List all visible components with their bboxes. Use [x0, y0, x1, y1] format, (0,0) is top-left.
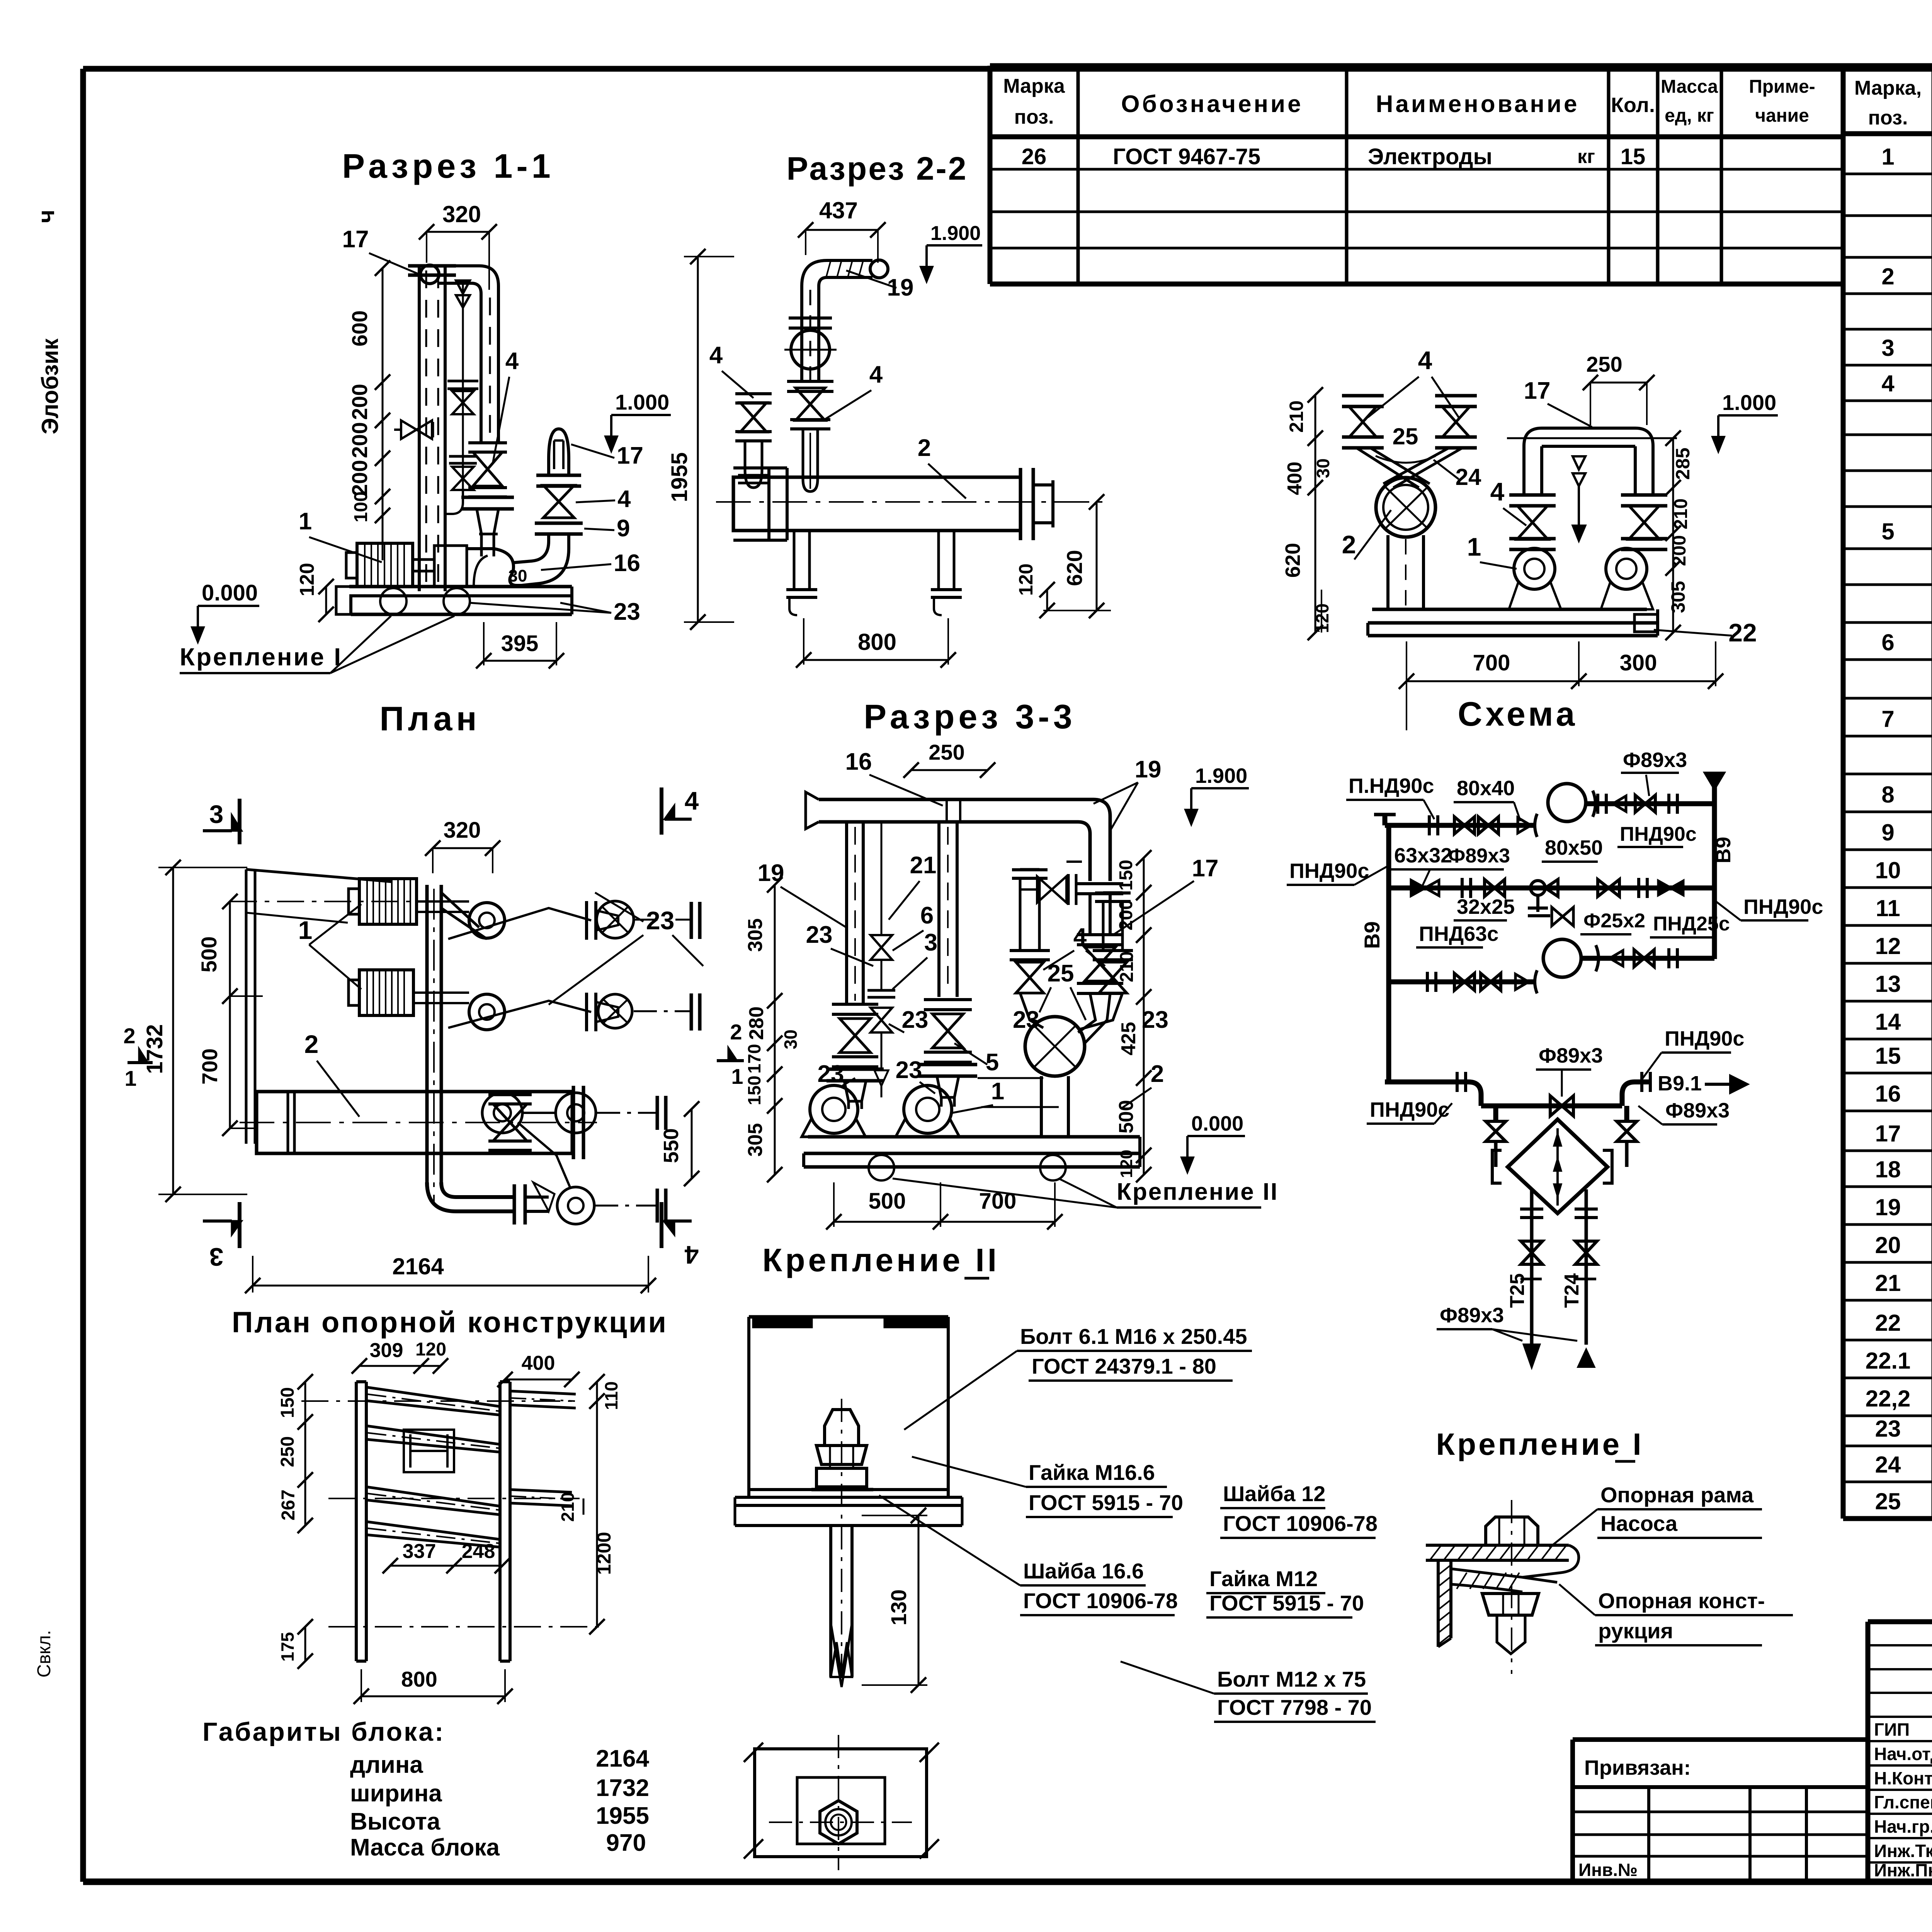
svg-text:4: 4 [684, 1241, 699, 1269]
svg-text:Гайка М12: Гайка М12 [1209, 1566, 1318, 1591]
svg-text:30: 30 [781, 1029, 801, 1049]
plan: side section marks 2/1 right [717, 1020, 744, 1088]
section 2-2: dim 800 bottom [796, 618, 956, 668]
svg-text:4: 4 [617, 486, 631, 512]
svg-text:25: 25 [1875, 1488, 1901, 1514]
support plan: braces [366, 1387, 500, 1547]
svg-text:500: 500 [869, 1189, 906, 1214]
section 1-1: callout 4 [493, 348, 519, 464]
section 1-1: dim 395 bottom [476, 622, 564, 668]
svg-text:1: 1 [299, 508, 312, 535]
section 3-3: foundation circles [869, 1155, 894, 1180]
detail Kreplenie I: labels [1549, 1483, 1793, 1645]
svg-text:22: 22 [1875, 1310, 1901, 1336]
svg-text:25: 25 [1393, 423, 1418, 449]
end view: right dim chain [1665, 430, 1694, 640]
svg-text:Привязан:: Привязан: [1584, 1756, 1691, 1779]
section 1-1: electric motor [346, 543, 434, 587]
section 1-1: pump with volute [434, 534, 527, 587]
svg-text:18: 18 [1875, 1156, 1901, 1182]
svg-text:16: 16 [614, 550, 640, 577]
svg-text:План опорной конструкции: План опорной конструкции [232, 1306, 668, 1339]
left table header text [1003, 75, 1815, 128]
svg-text:23: 23 [1142, 1007, 1168, 1033]
plan: manifold column [427, 885, 487, 1206]
svg-text:6: 6 [1881, 629, 1894, 655]
svg-text:Инв.№: Инв.№ [1578, 1860, 1638, 1880]
svg-text:620: 620 [1281, 543, 1304, 578]
support plan: dims top 309 120 400 [352, 1339, 580, 1387]
svg-text:кг: кг [1577, 146, 1595, 167]
svg-text:В9: В9 [1712, 837, 1735, 863]
section 1-1: dim 320 top [419, 201, 497, 290]
svg-text:2: 2 [123, 1024, 135, 1048]
plan: dim 550 right [660, 1101, 699, 1186]
svg-text:970: 970 [606, 1830, 646, 1856]
svg-text:120: 120 [1015, 563, 1037, 595]
svg-text:210: 210 [558, 1492, 578, 1522]
svg-text:Масса: Масса [1661, 77, 1718, 97]
title block frame [1868, 1622, 1932, 1882]
end view: callout 22 [1654, 618, 1757, 647]
svg-text:600: 600 [347, 310, 372, 346]
svg-text:длина: длина [350, 1752, 423, 1778]
svg-text:16: 16 [1875, 1081, 1901, 1107]
plan: dim 1732 left [142, 860, 247, 1202]
svg-text:2164: 2164 [392, 1253, 444, 1279]
section 3-3: left dim chain [744, 877, 801, 1182]
svg-text:700: 700 [1473, 650, 1510, 675]
svg-text:250: 250 [277, 1436, 298, 1467]
schema: line 4 bottom with bypass [1385, 982, 1747, 1116]
svg-text:ПНД25с: ПНД25с [1653, 913, 1730, 935]
svg-text:1: 1 [1881, 144, 1894, 170]
svg-text:Свкл.: Свкл. [34, 1630, 54, 1677]
svg-text:ГОСТ 10906-78: ГОСТ 10906-78 [1023, 1588, 1178, 1613]
svg-text:Масса блока: Масса блока [350, 1834, 500, 1861]
svg-text:250: 250 [1586, 352, 1622, 376]
svg-text:200: 200 [347, 460, 372, 496]
svg-text:1732: 1732 [596, 1775, 649, 1801]
svg-text:210: 210 [1671, 498, 1691, 529]
svg-text:Ф89х3: Ф89х3 [1440, 1304, 1504, 1327]
section 1-1: side valve on column [394, 420, 433, 439]
svg-text:130: 130 [886, 1589, 911, 1625]
svg-text:ПНД90с: ПНД90с [1620, 823, 1697, 845]
schema: heat exchanger diamond [1486, 1106, 1637, 1213]
svg-text:16: 16 [845, 748, 872, 775]
svg-text:ПНД90с: ПНД90с [1289, 859, 1369, 883]
svg-text:13: 13 [1875, 971, 1901, 997]
svg-text:В9: В9 [1360, 921, 1384, 949]
svg-text:175: 175 [277, 1632, 298, 1662]
left margin vertical handwriting [33, 210, 63, 1678]
svg-text:23: 23 [1875, 1416, 1901, 1442]
section 1-1: top elbow pipe with cap [420, 265, 498, 443]
section 1-1: riser column pipe [408, 266, 456, 591]
svg-text:11: 11 [1876, 895, 1900, 921]
svg-text:Ф89х3: Ф89х3 [1623, 748, 1687, 772]
svg-text:200: 200 [1116, 900, 1136, 930]
view title Крепление II [762, 1242, 1000, 1278]
svg-text:7: 7 [1881, 706, 1894, 732]
end view: right pump drop [1601, 495, 1667, 609]
svg-text:100: 100 [351, 492, 371, 522]
svg-text:17: 17 [1524, 378, 1551, 404]
svg-text:Шайба 16.6: Шайба 16.6 [1023, 1559, 1144, 1583]
svg-text:Обозначение: Обозначение [1121, 91, 1303, 117]
svg-text:Ф89х3: Ф89х3 [1539, 1044, 1603, 1067]
section 1-1: dim 120 [296, 563, 334, 622]
svg-text:2: 2 [918, 435, 931, 461]
svg-text:19: 19 [887, 274, 914, 301]
detail Kreplenie II: channel beam [735, 1317, 962, 1526]
svg-text:17: 17 [1875, 1121, 1901, 1146]
svg-text:Крепление I: Крепление I [180, 643, 342, 671]
plan: diagonal bracing pipes [448, 908, 591, 1187]
svg-text:ГОСТ 9467-75: ГОСТ 9467-75 [1113, 144, 1260, 169]
svg-text:320: 320 [442, 201, 481, 227]
right table header text [1854, 77, 1932, 129]
section 2-2: dim 620 and 120 [1015, 494, 1111, 618]
svg-text:500: 500 [197, 936, 221, 972]
section 3-3: column A pipe [827, 822, 884, 1109]
plan: motor 2 with pump [349, 970, 505, 1030]
svg-text:17: 17 [1192, 855, 1219, 882]
svg-text:Инж.Тк: Инж.Тк [1874, 1841, 1932, 1861]
svg-text:19: 19 [1135, 756, 1162, 783]
detail Kreplenie II: dim 130 [862, 1508, 927, 1693]
plan: dim 2164 bottom [245, 1253, 656, 1293]
svg-text:Насоса: Насоса [1600, 1511, 1678, 1536]
end view: callout 2 [1342, 510, 1391, 560]
svg-text:1.900: 1.900 [930, 222, 981, 245]
privyazan box [1573, 1740, 1868, 1882]
svg-text:Ф89х3: Ф89х3 [1448, 845, 1510, 867]
svg-text:23: 23 [1013, 1007, 1039, 1033]
svg-text:21: 21 [910, 852, 937, 879]
end view: callout 17 and dim 250 [1524, 352, 1655, 427]
detail Kreplenie II: bolt with nuts [811, 1410, 873, 1490]
svg-text:1: 1 [991, 1078, 1004, 1105]
svg-text:4: 4 [1073, 923, 1087, 950]
svg-text:280: 280 [745, 1007, 768, 1040]
svg-text:2164: 2164 [596, 1745, 649, 1772]
svg-text:4: 4 [1490, 477, 1505, 506]
svg-text:80х40: 80х40 [1457, 777, 1515, 800]
schema: labels line2 [1287, 844, 1823, 947]
svg-text:6: 6 [920, 902, 934, 929]
end view: left top valves pair [1342, 396, 1477, 488]
section 1-1: left dim chain 600/200/200/200/100 [347, 260, 390, 560]
schema: label Ф89х3 bottom [1437, 1304, 1577, 1341]
section 3-3: column B thin line with needle valve [867, 822, 895, 1097]
svg-text:1955: 1955 [667, 452, 692, 502]
svg-text:150: 150 [277, 1387, 298, 1418]
svg-text:Разрез 1-1: Разрез 1-1 [342, 147, 554, 185]
svg-text:ГОСТ 5915 - 70: ГОСТ 5915 - 70 [1029, 1490, 1183, 1515]
svg-text:12: 12 [1875, 933, 1901, 959]
detail Kreplenie I: hatched pump frame plate [1426, 1545, 1579, 1577]
svg-text:24: 24 [1456, 464, 1481, 490]
svg-text:ПНД63с: ПНД63с [1419, 922, 1498, 946]
svg-text:200: 200 [347, 384, 372, 420]
svg-text:22.1: 22.1 [1866, 1348, 1911, 1374]
svg-text:120: 120 [415, 1339, 446, 1360]
svg-text:120: 120 [1117, 1150, 1136, 1178]
svg-text:9: 9 [1881, 820, 1894, 845]
end view: ejector circle with column [1376, 478, 1435, 609]
end view: bottom dims 700 300 [1399, 641, 1723, 730]
svg-text:550: 550 [660, 1128, 683, 1163]
section 2-2: legs [786, 531, 962, 615]
svg-text:400: 400 [1284, 462, 1306, 495]
plan: side section marks 2/1 left [123, 1024, 153, 1090]
svg-text:437: 437 [819, 197, 858, 223]
section 3-3: pump 2 [896, 1085, 959, 1137]
support plan: middle H detail [404, 1430, 454, 1472]
detail Kreplenie II: plate plan below [744, 1735, 939, 1870]
svg-text:200: 200 [1669, 535, 1690, 566]
section 3-3: ejector circle [1025, 1017, 1085, 1137]
svg-text:3: 3 [924, 929, 937, 956]
svg-text:10: 10 [1875, 857, 1901, 883]
svg-text:305: 305 [744, 918, 767, 952]
svg-text:23: 23 [818, 1061, 844, 1087]
svg-text:200: 200 [347, 422, 372, 458]
right table rows text [1866, 141, 1932, 1514]
detail Kreplenie I: angle bracket hatched [1438, 1560, 1557, 1647]
svg-text:Шайба 12: Шайба 12 [1223, 1481, 1325, 1506]
svg-text:П.НД90с: П.НД90с [1349, 774, 1434, 798]
svg-text:1.900: 1.900 [1195, 764, 1247, 787]
section 2-2: side valve assembly with callout 4 [709, 342, 772, 488]
schema: top line 1 [1374, 784, 1714, 837]
svg-text:Опорная конст-: Опорная конст- [1598, 1588, 1765, 1613]
svg-text:1.000: 1.000 [615, 390, 669, 414]
svg-text:поз.: поз. [1868, 107, 1908, 129]
plan: motor 1 with pump [349, 879, 505, 938]
svg-text:15: 15 [1875, 1043, 1901, 1069]
svg-text:700: 700 [197, 1048, 222, 1084]
svg-text:22: 22 [1728, 618, 1757, 647]
svg-text:Ф89х3: Ф89х3 [1665, 1099, 1730, 1122]
section 3-3: callout 16 and dim 250 [845, 740, 995, 806]
view title Крепление I [1436, 1427, 1643, 1461]
plan: frame outline [246, 869, 392, 1144]
gabarity block text [202, 1717, 650, 1861]
support plan: posts [356, 1382, 510, 1661]
end view: callout 4 right and 1 [1467, 477, 1526, 569]
svg-text:30: 30 [509, 566, 527, 585]
svg-text:9: 9 [617, 515, 630, 542]
schema: labels line1 [1346, 748, 1697, 869]
plan: bottom circle row4 [533, 1182, 666, 1224]
plan: inner dims 500 700 [197, 894, 468, 1136]
svg-text:2: 2 [730, 1020, 742, 1044]
section 1-1: gate valve 4 on riser [461, 443, 514, 556]
svg-text:3: 3 [209, 800, 224, 828]
svg-text:17: 17 [617, 442, 643, 469]
svg-text:Ф25х2: Ф25х2 [1583, 910, 1645, 932]
svg-text:63х32: 63х32 [1394, 844, 1452, 867]
end view: funnel arrow down [1573, 456, 1585, 541]
svg-text:800: 800 [858, 629, 896, 655]
plan: bottom bold elbow pipe [427, 1182, 549, 1225]
title block signatures [1874, 1719, 1932, 1880]
svg-text:300: 300 [1620, 650, 1657, 675]
section 2-2: vertical dim 1955 [667, 249, 734, 630]
svg-text:5: 5 [986, 1049, 999, 1076]
end view: base frame [1368, 609, 1658, 636]
svg-text:4: 4 [685, 786, 699, 815]
svg-text:Наименование: Наименование [1376, 91, 1580, 117]
svg-text:32х25: 32х25 [1457, 895, 1515, 918]
svg-text:19: 19 [1875, 1194, 1901, 1220]
section 1-1: callout 1 motor [299, 508, 382, 562]
schema: needle branch with valve [1528, 895, 1573, 926]
end view: callout 4 [1368, 346, 1459, 417]
svg-text:15: 15 [1621, 144, 1646, 169]
section 3-3: bottom dims 500 700 [826, 1182, 1063, 1230]
svg-text:1: 1 [731, 1064, 743, 1088]
svg-text:2: 2 [1881, 264, 1894, 289]
svg-text:ширина: ширина [350, 1780, 442, 1807]
svg-text:305: 305 [744, 1123, 767, 1157]
svg-text:Разрез 3-3: Разрез 3-3 [864, 697, 1076, 736]
svg-text:Кол.: Кол. [1611, 94, 1655, 117]
svg-text:ед, кг: ед, кг [1665, 105, 1714, 126]
section 2-2: check valve circle on riser [784, 318, 837, 391]
plan: middle circles row3 [482, 1093, 666, 1133]
svg-text:4: 4 [869, 361, 883, 388]
schema: line 2 [1389, 878, 1714, 898]
plan: right valve cluster row2 [587, 993, 700, 1031]
section 3-3: callout 19 and level 1.900 [1094, 756, 1161, 831]
left table row 26: electrodes [1022, 144, 1646, 169]
section 2-2: riser pipe with top elbow and cap [802, 260, 888, 383]
left specification table grid [990, 66, 1843, 284]
svg-text:0.000: 0.000 [202, 580, 258, 605]
svg-text:ПНД90с: ПНД90с [1743, 895, 1823, 918]
svg-text:26: 26 [1022, 144, 1047, 169]
svg-text:248: 248 [462, 1540, 495, 1563]
svg-text:4: 4 [1881, 371, 1895, 396]
end view: right П pipe [1507, 428, 1677, 495]
svg-text:120: 120 [296, 563, 318, 597]
svg-text:8: 8 [1881, 782, 1894, 808]
svg-text:0.000: 0.000 [1191, 1112, 1243, 1135]
svg-text:Нач.отд: Нач.отд [1874, 1744, 1932, 1764]
svg-text:23: 23 [614, 599, 640, 625]
plan: right valve cluster row1 [587, 901, 700, 940]
svg-text:Габариты блока:: Габариты блока: [202, 1717, 445, 1747]
section 2-2: dim 437 [798, 197, 886, 263]
section 3-3: pump 1 [802, 1085, 866, 1137]
svg-text:ч: ч [33, 210, 59, 223]
svg-text:2: 2 [1342, 530, 1356, 559]
svg-text:500: 500 [1115, 1100, 1138, 1134]
section 2-2: thermowell pipe [803, 429, 818, 492]
plan: callout 1 [298, 904, 361, 989]
detail Kreplenie II: anchor stud [831, 1399, 852, 1687]
detail Kreplenie I: bolt head [1486, 1517, 1538, 1545]
svg-text:Высота: Высота [350, 1808, 440, 1835]
section 3-3: right riser valves [1077, 884, 1123, 1043]
svg-text:ГОСТ 10906-78: ГОСТ 10906-78 [1223, 1511, 1378, 1536]
svg-text:110: 110 [601, 1381, 621, 1410]
schema: T25 T24 outlets [1506, 1189, 1598, 1367]
svg-text:4: 4 [1418, 346, 1432, 374]
svg-text:Инж.Пк: Инж.Пк [1874, 1860, 1932, 1880]
svg-text:700: 700 [979, 1189, 1017, 1214]
support plan: dims 337 248 [383, 1540, 510, 1573]
svg-text:24: 24 [1875, 1452, 1901, 1478]
section 2-2: gate valve on riser [790, 388, 830, 429]
svg-text:1: 1 [298, 916, 313, 944]
svg-text:20: 20 [1875, 1232, 1901, 1258]
plan: heat exchanger cylinder [240, 1086, 597, 1159]
support plan: right stubs [510, 1391, 576, 1506]
svg-text:22,2: 22,2 [1866, 1386, 1911, 1412]
svg-text:23: 23 [902, 1007, 929, 1033]
svg-text:4: 4 [505, 348, 519, 374]
svg-text:Схема: Схема [1458, 695, 1578, 733]
svg-text:425: 425 [1117, 1022, 1140, 1056]
schema: right bus B9 with arrow [1705, 773, 1735, 959]
schema: labels line4 [1367, 1027, 1744, 1124]
section 2-2: callout 2 [918, 435, 966, 498]
svg-text:Электроды: Электроды [1368, 144, 1492, 169]
svg-text:Нач.гр.: Нач.гр. [1874, 1816, 1932, 1837]
svg-text:267: 267 [278, 1490, 299, 1520]
svg-text:170: 170 [744, 1044, 764, 1074]
svg-text:23: 23 [806, 922, 833, 948]
svg-text:Марка: Марка [1003, 75, 1065, 97]
section 1-1: callout 17 top [342, 226, 421, 275]
section 1-1: right standpipe with dome cap [514, 429, 583, 585]
section 3-3: upper tee assembly [1010, 862, 1133, 1030]
section 1-1: inner thin line with funnels and valves [445, 281, 478, 514]
right specification table grid [1843, 66, 1932, 1519]
plan: callout 2 [304, 1030, 359, 1117]
svg-text:Крепление II: Крепление II [762, 1242, 1000, 1278]
section 3-3: column C pipe [918, 822, 977, 1107]
support plan: dim 800 bottom [354, 1667, 513, 1704]
section 2-2: callout 4 second [825, 361, 883, 419]
svg-text:250: 250 [929, 740, 964, 764]
svg-text:3: 3 [209, 1243, 224, 1271]
svg-text:337: 337 [403, 1540, 436, 1563]
svg-text:395: 395 [501, 631, 539, 656]
svg-text:21: 21 [1875, 1270, 1901, 1296]
svg-text:3: 3 [1881, 335, 1894, 361]
schema: left bus B9 [1360, 823, 1389, 983]
svg-text:План: План [379, 699, 480, 738]
svg-text:620: 620 [1062, 550, 1087, 586]
svg-text:ГИП: ГИП [1874, 1719, 1910, 1740]
svg-text:Разрез 2-2: Разрез 2-2 [787, 150, 968, 187]
svg-text:800: 800 [401, 1667, 437, 1691]
end view: left dim chain [1281, 387, 1333, 640]
schema: line 3 [1389, 939, 1714, 993]
svg-text:1200: 1200 [593, 1532, 615, 1575]
section 3-3: right dim chain [1115, 850, 1151, 1182]
end view: callout 25 and 24 [1376, 423, 1481, 490]
support plan: centerlines [301, 1401, 603, 1627]
svg-text:320: 320 [444, 818, 481, 843]
svg-text:Болт М12 х 75: Болт М12 х 75 [1217, 1667, 1366, 1691]
